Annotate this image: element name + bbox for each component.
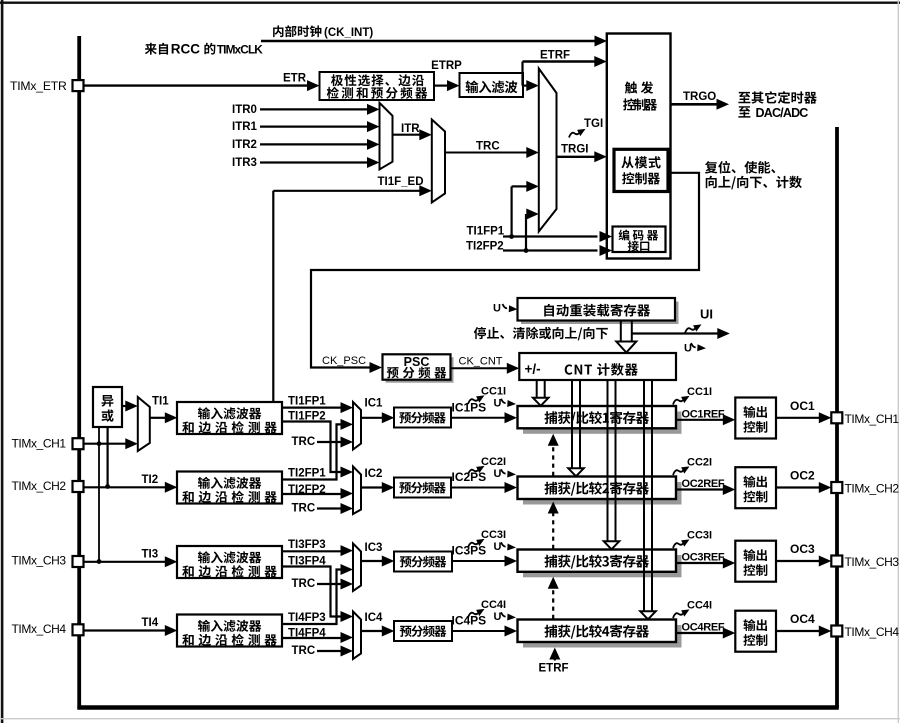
input filter & edge detector (channel 4) — [177, 615, 282, 647]
svg-text:TI1: TI1 — [152, 396, 169, 408]
prescaler (channel 2) — [394, 478, 451, 498]
svg-text:TRC: TRC — [292, 578, 316, 590]
svg-text:TRC: TRC — [476, 141, 500, 153]
svg-text:IC3: IC3 — [365, 542, 383, 554]
svg-text:TRGO: TRGO — [683, 91, 716, 103]
svg-text:UI: UI — [700, 307, 713, 322]
svg-text:CC1I: CC1I — [687, 386, 712, 398]
pin TIMx_CH1 (left) — [73, 438, 84, 449]
TIMx module boundary bottom edge — [77, 705, 838, 709]
label: reset, enable, up/down, count — [705, 161, 775, 174]
counter bus to CC3 — [607, 380, 609, 542]
mux: IC4 selector — [353, 612, 361, 660]
pin TIMx_CH4 (left) — [73, 624, 84, 635]
svg-text:CK_CNT: CK_CNT — [459, 356, 503, 368]
label: 来自RCC的TIMxCLK — [145, 43, 168, 55]
svg-text:TRC: TRC — [292, 645, 316, 657]
counter bus to CC1 — [536, 380, 538, 398]
pin TIMx_CH1 (right) — [831, 412, 842, 423]
mux: TI1 input selector — [138, 397, 150, 451]
wire CK_INT (internal clock) — [261, 40, 595, 42]
block: polarity selection & edge detector & prescaler — [320, 72, 435, 100]
svg-text:ETR: ETR — [283, 73, 307, 85]
block: slave mode controller — [614, 149, 668, 191]
svg-text:TI3: TI3 — [142, 548, 159, 560]
input filter & edge detector (channel 1) — [177, 402, 282, 434]
output control (channel 3) — [735, 541, 776, 582]
wire from TIMx_CH1 pin — [84, 443, 126, 445]
svg-text:TIMx_CH1: TIMx_CH1 — [845, 412, 900, 426]
wire ETRF into CC4 — [554, 657, 556, 661]
svg-text:TIMx_CH2: TIMx_CH2 — [845, 482, 900, 496]
svg-text:CK_PSC: CK_PSC — [322, 355, 366, 367]
arrow: auto-reload to counter (UEV) — [620, 321, 622, 342]
wire: stop/clear/up-down — [632, 332, 718, 334]
svg-text:OC1REF: OC1REF — [682, 408, 725, 420]
capture/compare register 3 — [523, 555, 682, 577]
svg-text:ITR0: ITR0 — [232, 104, 257, 116]
prescaler (channel 1) — [394, 408, 451, 428]
svg-text:TI1FP1: TI1FP1 — [288, 395, 326, 407]
svg-text:CC3I: CC3I — [481, 529, 506, 541]
label: to other timers / to DAC/ADC — [738, 91, 816, 104]
wire: XOR input taps — [98, 427, 100, 562]
svg-text:OC2REF: OC2REF — [682, 478, 725, 490]
prescaler (channel 3) — [394, 552, 452, 572]
wire ETR — [84, 84, 309, 86]
svg-text:CC4I: CC4I — [481, 599, 506, 611]
pin TIMx_CH2 (right) — [831, 482, 842, 493]
counter bus to CC2 — [571, 380, 573, 469]
block: auto-reload register — [521, 302, 679, 325]
block: XOR (异或) — [93, 387, 122, 427]
svg-text:U: U — [493, 303, 501, 315]
svg-text:TI2: TI2 — [142, 474, 159, 486]
svg-text:OC4: OC4 — [790, 612, 815, 626]
counter bus to CC4 — [643, 380, 645, 612]
svg-text:TIMxCLK: TIMxCLK — [217, 43, 263, 57]
svg-text:CC1I: CC1I — [481, 386, 506, 398]
wire TI4FP4 to IC4 mux — [282, 637, 341, 639]
TIMx module boundary left edge — [77, 36, 81, 710]
prescaler (channel 4) — [394, 621, 452, 641]
wire TI1 — [150, 417, 165, 419]
svg-text:ITR1: ITR1 — [232, 121, 258, 133]
dashed capture trigger CC2->CC1 — [552, 445, 554, 476]
svg-text:PSC: PSC — [404, 355, 430, 369]
svg-text:CC3I: CC3I — [687, 530, 712, 542]
block: input filter (ETR) — [460, 73, 524, 97]
svg-text:ITR: ITR — [401, 123, 420, 135]
svg-text:IC4: IC4 — [365, 612, 384, 624]
pin TIMx_CH4 (right) — [831, 626, 842, 637]
wire TI2FP2 to IC2 mux — [282, 493, 341, 495]
svg-text:IC2: IC2 — [365, 468, 383, 480]
mux: IC3 selector — [353, 544, 361, 592]
svg-text:TI3FP3: TI3FP3 — [288, 539, 326, 551]
svg-text:TIMx_CH2: TIMx_CH2 — [12, 479, 67, 493]
capture/compare register 2 — [523, 482, 682, 505]
svg-text:TRC: TRC — [292, 436, 316, 448]
mux: IC2 selector — [353, 467, 361, 515]
block: PSC prescaler — [386, 357, 454, 382]
label: 内部时钟 (CK_INT) — [273, 25, 321, 37]
block: CNT counter — [519, 353, 676, 380]
dashed capture trigger CC3->CC2 — [552, 513, 554, 549]
svg-text:DAC/ADC: DAC/ADC — [756, 106, 809, 120]
svg-text:TIMx_CH3: TIMx_CH3 — [845, 555, 900, 569]
event flag TGI — [569, 129, 586, 138]
capture/compare register 1 — [523, 412, 682, 434]
wire TI1FP1 to IC1 mux — [282, 407, 341, 409]
wire: XOR output to TI1 mux — [122, 405, 126, 407]
mux: ITR selector — [380, 103, 393, 170]
svg-text:CC4I: CC4I — [687, 600, 712, 612]
svg-text:TIMx_CH4: TIMx_CH4 — [12, 622, 67, 636]
wire TI3FP3 to IC3 mux — [282, 550, 341, 552]
svg-text:TIMx_CH4: TIMx_CH4 — [845, 625, 900, 639]
pin TIMx_ETR square — [73, 80, 84, 91]
input filter & edge detector (channel 2) — [177, 472, 282, 504]
svg-text:TGI: TGI — [584, 118, 603, 130]
output control (channel 1) — [735, 398, 776, 439]
output control (channel 4) — [735, 611, 776, 652]
svg-text:TI2FP1: TI2FP1 — [288, 467, 326, 479]
svg-text:OC4REF: OC4REF — [682, 622, 725, 634]
svg-text:TRGI: TRGI — [561, 144, 588, 156]
svg-text:TI1FP1: TI1FP1 — [467, 226, 505, 238]
pin TIMx_CH3 (left) — [73, 556, 84, 567]
svg-text:(CK_INT): (CK_INT) — [324, 27, 373, 39]
wire: slave mode controller route to PSC — [311, 173, 699, 368]
svg-text:OC2: OC2 — [790, 469, 815, 483]
svg-text:ETRF: ETRF — [540, 50, 570, 62]
mux: TRC selector — [432, 120, 445, 203]
svg-text:ITR3: ITR3 — [232, 157, 257, 169]
wire TI2FP1 cross-up to IC1 mux — [282, 424, 341, 479]
svg-text:TI4: TI4 — [142, 617, 159, 629]
block: trigger controller — [607, 34, 671, 259]
svg-text:OC3: OC3 — [790, 542, 815, 556]
output control (channel 2) — [735, 467, 776, 508]
svg-text:TIMx_CH3: TIMx_CH3 — [12, 554, 67, 568]
mux: TRGI selector (large) — [539, 69, 557, 232]
pin TIMx_CH2 (left) — [73, 481, 84, 492]
wire TI1FP2 cross-down to IC2 mux — [282, 422, 341, 473]
svg-text:OC3REF: OC3REF — [682, 552, 725, 564]
svg-text:ETRF: ETRF — [539, 663, 569, 675]
svg-text:OC1: OC1 — [790, 399, 815, 413]
mux: IC1 selector — [353, 402, 361, 450]
svg-text:TRC: TRC — [292, 503, 316, 515]
wire TI3FP4 cross-down to IC4 mux — [282, 567, 341, 617]
svg-text:TI2FP2: TI2FP2 — [466, 241, 504, 253]
svg-text:RCC: RCC — [171, 42, 200, 57]
svg-text:IC1: IC1 — [365, 398, 384, 410]
svg-text:TIMx_ETR: TIMx_ETR — [10, 79, 67, 93]
node: TI2FP2 junction — [524, 248, 529, 253]
TIMx module boundary right edge — [835, 127, 839, 708]
svg-text:ITR2: ITR2 — [232, 139, 257, 151]
node: TI1FP1 junction — [509, 234, 514, 239]
node: XOR tap on TI2 — [105, 484, 110, 489]
capture/compare register 4 — [523, 625, 682, 648]
node: XOR tap on TI1 — [97, 441, 102, 446]
pin TIMx_CH3 (right) — [831, 556, 842, 567]
svg-text:TI4FP3: TI4FP3 — [288, 612, 326, 624]
dashed capture trigger CC4->CC3 — [552, 588, 554, 619]
svg-text:CC2I: CC2I — [687, 457, 712, 469]
input filter & edge detector (channel 3) — [177, 546, 282, 578]
svg-text:TIMx_CH1: TIMx_CH1 — [12, 436, 67, 450]
svg-text:CC2I: CC2I — [481, 456, 506, 468]
node: XOR tap on TI3 — [97, 559, 102, 564]
block: encoder interface — [613, 227, 666, 253]
svg-text:ETRP: ETRP — [431, 60, 462, 72]
wire TI4FP3 cross-up to IC3 mux — [282, 570, 341, 625]
svg-text:TI1F_ED: TI1F_ED — [378, 176, 424, 188]
svg-text:+/-: +/- — [525, 362, 541, 377]
